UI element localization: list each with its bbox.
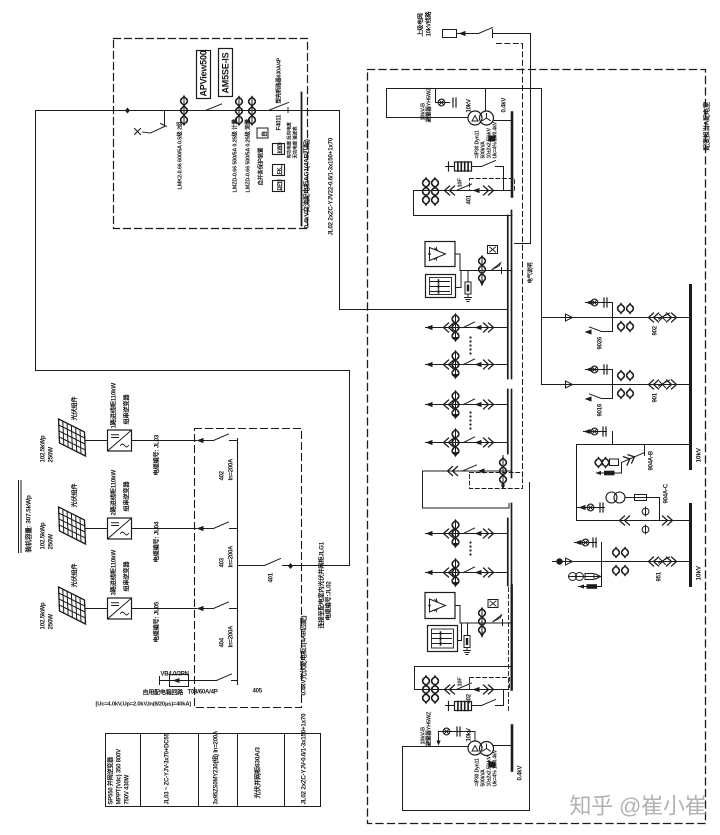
svg-text:0.4kV: 0.4kV (502, 98, 508, 113)
svg-text:配变担当A配电室: 配变担当A配电室 (702, 101, 711, 150)
svg-text:250W: 250W (48, 447, 55, 463)
svg-text:10F: 10F (458, 677, 464, 687)
svg-text:电缆编号: JL04: 电缆编号: JL04 (153, 521, 161, 562)
svg-text:电缆编号:JL02: 电缆编号:JL02 (325, 581, 333, 621)
svg-text:10kV: 10kV (696, 565, 703, 580)
svg-text:250W: 250W (48, 614, 55, 630)
svg-text:10kV: 10kV (467, 99, 473, 112)
svg-text:APView500: APView500 (199, 50, 209, 96)
svg-text:自并条保护装置: 自并条保护装置 (257, 147, 265, 185)
svg-text:9026: 9026 (598, 336, 604, 349)
svg-text:9016: 9016 (598, 403, 604, 416)
svg-text:组串逆变器: 组串逆变器 (123, 394, 131, 425)
svg-text:SP550 并网逆变器: SP550 并网逆变器 (107, 756, 115, 805)
svg-text:自用配电箱回路: 自用配电箱回路 (143, 689, 185, 697)
svg-text:904A-C: 904A-C (664, 483, 670, 503)
svg-text:401: 401 (269, 572, 275, 582)
svg-text:750V 430W: 750V 430W (125, 774, 131, 804)
svg-text:102.5kWp: 102.5kWp (40, 602, 47, 629)
svg-text:951: 951 (657, 571, 663, 581)
svg-text:3路进线柜110kW: 3路进线柜110kW (110, 550, 118, 596)
svg-text:901: 901 (653, 392, 659, 402)
svg-text:102.5kWp: 102.5kWp (40, 522, 47, 549)
svg-text:405: 405 (253, 689, 263, 695)
svg-text:LMZD-0.66 500/5A 0.25级 计量: LMZD-0.66 500/5A 0.25级 计量 (231, 118, 239, 192)
svg-text:102.5kWp: 102.5kWp (40, 435, 47, 462)
svg-text:F4011: F4011 (277, 114, 283, 131)
svg-text:10kV: 10kV (467, 728, 473, 741)
svg-text:0.4kV光伏配电柜1(4AB匹配): 0.4kV光伏配电柜1(4AB匹配) (299, 616, 308, 696)
svg-text:2路进线柜110kW: 2路进线柜110kW (110, 470, 118, 516)
svg-text:902: 902 (653, 325, 659, 335)
svg-text:JL03 ~ ZC-YJV-3x70+DC55: JL03 ~ ZC-YJV-3x70+DC55 (165, 733, 171, 805)
svg-text:DPH: DPH (277, 179, 283, 190)
svg-text:10kV: 10kV (696, 447, 703, 462)
svg-text:无功电度 谐波表: 无功电度 谐波表 (292, 126, 299, 159)
svg-text:JL02 2xZC-YJV-0.6/1-3x150+1x70: JL02 2xZC-YJV-0.6/1-3x150+1x70 (301, 713, 308, 805)
svg-text:装机容量: 307.5kWp: 装机容量: 307.5kWp (24, 495, 33, 553)
svg-text:上级电网: 上级电网 (417, 13, 425, 36)
svg-text:404: 404 (220, 637, 226, 647)
svg-text:连接至配电室内光伏并网柜JLG1: 连接至配电室内光伏并网柜JLG1 (318, 541, 326, 628)
svg-text:光伏组件: 光伏组件 (71, 396, 79, 422)
svg-text:塑壳断路器630A/4P: 塑壳断路器630A/4P (275, 57, 283, 103)
svg-text:10F: 10F (458, 178, 464, 188)
svg-text:自: 自 (261, 131, 269, 137)
svg-text:250W: 250W (48, 534, 55, 550)
svg-text:电气说明: 电气说明 (526, 262, 534, 284)
svg-text:知乎 @崔小崔: 知乎 @崔小崔 (570, 794, 707, 819)
svg-text:LMZD-0.66 500/5A 0.25级 测量: LMZD-0.66 500/5A 0.25级 测量 (244, 118, 252, 192)
svg-text:光伏组件: 光伏组件 (71, 563, 79, 589)
svg-text:电缆编号: JL03: 电缆编号: JL03 (153, 434, 161, 475)
svg-text:有功电度 反向电度: 有功电度 反向电度 (286, 122, 293, 159)
svg-text:3x95ZS0MY230(组) In=200A: 3x95ZS0MY230(组) In=200A (212, 730, 220, 804)
svg-text:避雷器YH5WZ: 避雷器YH5WZ (425, 711, 433, 747)
svg-text:MPPT(Vdc) 350 800V: MPPT(Vdc) 350 800V (117, 749, 123, 805)
svg-text:In=200A: In=200A (229, 545, 235, 568)
svg-text:LMK2-0.66 600/5A 0.5级 2组: LMK2-0.66 600/5A 0.5级 2组 (176, 121, 184, 189)
svg-text:组串逆变器: 组串逆变器 (123, 481, 131, 512)
svg-text:电缆编号: JL05: 电缆编号: JL05 (153, 601, 161, 642)
svg-text:403: 403 (220, 557, 226, 567)
svg-text:1路进线柜110kW: 1路进线柜110kW (110, 383, 118, 429)
svg-text:光伏组件: 光伏组件 (71, 483, 79, 509)
svg-text:组串逆变器: 组串逆变器 (123, 561, 131, 592)
svg-text:0.4kV: 0.4kV (518, 766, 524, 781)
svg-text:JL02 2xZC-YJV22-0.6/1-3x150+1x: JL02 2xZC-YJV22-0.6/1-3x150+1x70 (328, 137, 335, 235)
svg-text:VB4.0/3PN: VB4.0/3PN (161, 672, 189, 678)
svg-text:光伏并网柜630A/3: 光伏并网柜630A/3 (253, 747, 262, 800)
svg-text:In=200A: In=200A (229, 458, 235, 481)
svg-text:401: 401 (467, 194, 473, 204)
svg-text:[Uc=4.0kV,Up=2.0kV,In(8/20μs)=: [Uc=4.0kV,Up=2.0kV,In(8/20μs)=40kA] (96, 702, 192, 708)
svg-text:904A-B: 904A-B (649, 450, 655, 470)
svg-text:T08/60A/4P: T08/60A/4P (188, 690, 218, 696)
svg-text:10kV线路: 10kV线路 (425, 10, 433, 36)
svg-text:0.4kV交流配电柜AG1(4AB匹配): 0.4kV交流配电柜AG1(4AB匹配) (302, 139, 311, 228)
svg-text:Uk=4% 10/0.4kV: Uk=4% 10/0.4kV (493, 749, 499, 786)
svg-text:避雷器YH5WZ: 避雷器YH5WZ (425, 87, 433, 123)
svg-text:AM5SE-IS: AM5SE-IS (221, 52, 231, 93)
svg-text:In=200A: In=200A (229, 625, 235, 648)
svg-text:FK: FK (277, 167, 283, 174)
svg-text:402: 402 (220, 470, 226, 480)
svg-text:kWh: kWh (277, 142, 283, 154)
